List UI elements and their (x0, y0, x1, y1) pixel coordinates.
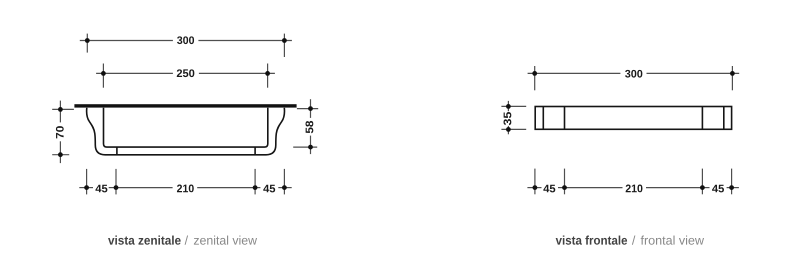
bar bracket line right (701, 107, 703, 130)
dim text 58 (rotated) (306, 121, 314, 133)
dim line 35 (bar height) (501, 101, 526, 134)
bar end cap line right (723, 107, 725, 130)
shelf top plate (section, thick) (74, 104, 296, 107)
shelf body outer contour (87, 108, 285, 155)
shelf inner tray contour (104, 108, 268, 147)
bottom dim row 45/210/45 (zenital) (79, 169, 291, 195)
dim text 300 (frontal) (625, 70, 642, 78)
base strip right edge (254, 147, 256, 155)
bar end cap line left (542, 107, 544, 130)
dim text 45 left (frontal) (543, 185, 555, 193)
dim text 300 (zenital) (177, 36, 194, 44)
dim text 250 (177, 69, 195, 77)
dim line 250 (zenital) (96, 64, 275, 88)
caption: vista zenitale / zenital view (108, 236, 181, 245)
dim text 45 right (263, 185, 275, 193)
dim text 210 (frontal) (626, 185, 643, 193)
dim line 300 (frontal) (528, 66, 740, 90)
dim line 70 (height, left) (52, 101, 74, 164)
dim text 45 right (frontal) (712, 185, 724, 193)
base strip left edge (116, 147, 118, 155)
bottom dim row 45/210/45 (frontal) (527, 169, 739, 195)
dim line 58 (depth, right) (293, 99, 318, 154)
dim text 35 (rotated) (504, 112, 512, 125)
dim line 300 (zenital) (80, 34, 292, 57)
dim text 70 (rotated) (56, 126, 64, 138)
dim text 210 (zenital) (177, 185, 194, 193)
bar bracket line left (564, 107, 566, 130)
caption: vista frontale / frontal view (556, 236, 627, 245)
dim text 45 left (95, 185, 107, 193)
towel bar front outline (535, 107, 731, 130)
